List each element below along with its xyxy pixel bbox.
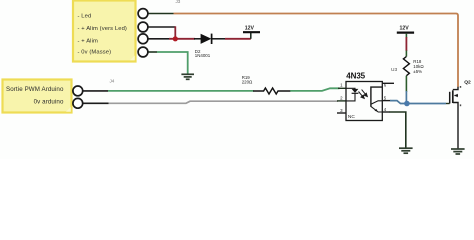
svg-text:0v arduino: 0v arduino [34, 99, 64, 106]
svg-text:- + Alim: - + Alim [78, 38, 98, 44]
svg-text:J4: J4 [110, 78, 115, 83]
svg-text:12V: 12V [245, 25, 255, 31]
svg-text:Q2: Q2 [464, 79, 471, 85]
svg-text:J3: J3 [176, 0, 181, 4]
svg-text:NC: NC [348, 114, 355, 120]
svg-text:- Led: - Led [78, 14, 92, 20]
svg-text:12V: 12V [400, 25, 410, 31]
svg-text:- 0v (Masse): - 0v (Masse) [78, 50, 112, 56]
svg-text:Sortie PWM Arduino: Sortie PWM Arduino [6, 86, 64, 93]
svg-text:- + Alim (vers Led): - + Alim (vers Led) [78, 26, 127, 32]
svg-text:4N35: 4N35 [346, 72, 365, 81]
svg-text:U3: U3 [391, 67, 397, 73]
svg-text:±5%: ±5% [413, 69, 422, 74]
svg-text:220Ω: 220Ω [242, 79, 253, 84]
svg-text:1N4001: 1N4001 [195, 53, 211, 58]
